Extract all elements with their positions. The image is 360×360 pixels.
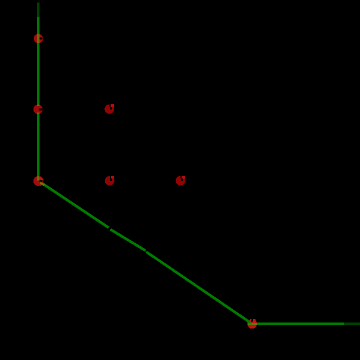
node B2 (109,180) dot	[105, 176, 115, 186]
node A2 (38,109) dot on vertical wire	[33, 105, 42, 114]
node B3 (180,180) dot	[176, 176, 186, 186]
node A1 (38,38) dot on vertical wire	[34, 34, 43, 43]
wire vertical bright segment	[37, 17, 40, 180]
wire horizontal dim right segment	[344, 323, 360, 325]
node B1 (109,109) dot	[105, 104, 115, 114]
node A3 (38,180) corner dot	[33, 176, 44, 186]
wire vertical dim top segment	[37, 3, 40, 18]
node C (252,324) end dot on horizontal wire	[247, 318, 257, 329]
wire diagonal segment 2	[110, 229, 145, 250]
wire diagonal segment 1	[39, 181, 109, 227]
wire diagonal segment 3	[146, 252, 251, 323]
wire horizontal bright segment	[253, 323, 345, 325]
